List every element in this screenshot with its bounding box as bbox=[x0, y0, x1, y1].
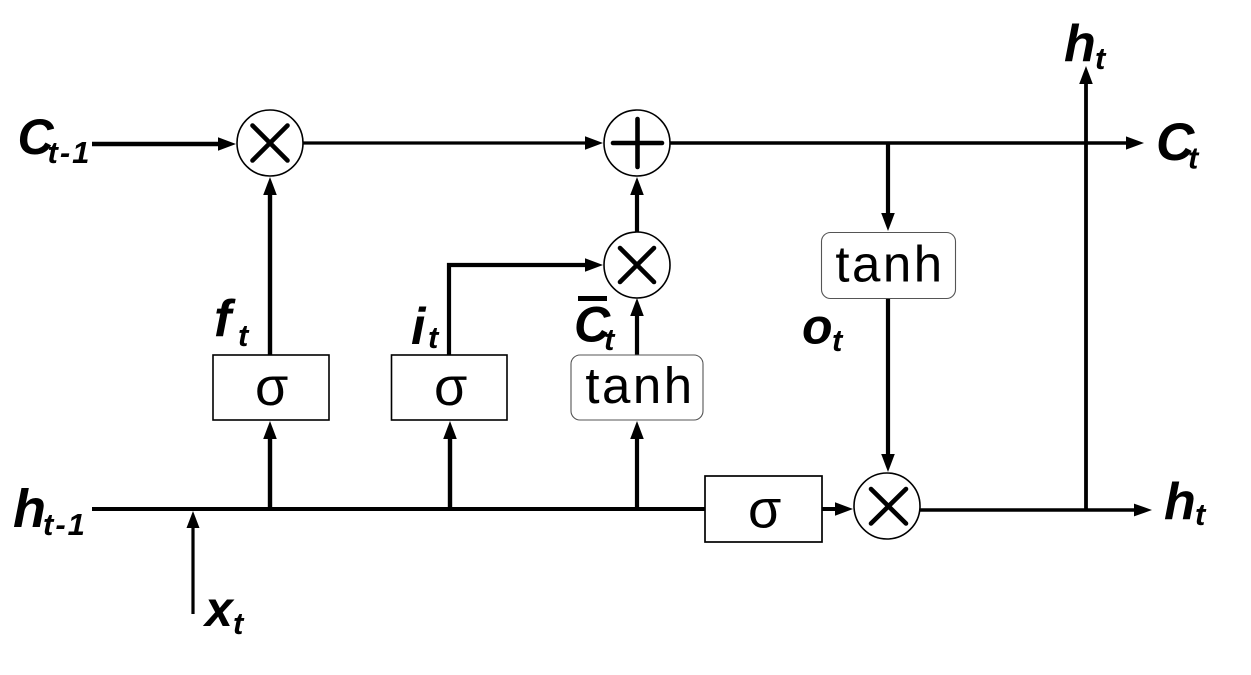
svg-text:h: h bbox=[1164, 473, 1196, 531]
svg-text:σ: σ bbox=[748, 480, 781, 540]
wire candidate multiply to add gate bbox=[635, 191, 639, 232]
wire branch up to candidate tanh bbox=[635, 434, 639, 509]
svg-text:t: t bbox=[233, 606, 245, 641]
wire h_t-1 rail bbox=[92, 507, 839, 511]
wire hidden state up to h_t top bbox=[1084, 80, 1088, 509]
svg-text:h: h bbox=[1064, 15, 1096, 73]
wire cell state branch down to output tanh bbox=[886, 143, 890, 217]
candidate tanh box bbox=[571, 355, 703, 420]
svg-text:t: t bbox=[238, 318, 250, 353]
wire x_t input bbox=[191, 522, 194, 614]
multiply gate (output) bbox=[854, 473, 920, 539]
svg-text:σ: σ bbox=[434, 357, 467, 417]
svg-text:i: i bbox=[411, 298, 427, 356]
input gate sigma box bbox=[392, 355, 508, 420]
multiply gate (candidate) bbox=[604, 232, 670, 298]
svg-text:t: t bbox=[1188, 141, 1200, 176]
svg-text:t: t bbox=[1195, 497, 1207, 532]
forget gate sigma box bbox=[213, 355, 329, 420]
wire forget multiply to add gate bbox=[303, 141, 589, 144]
svg-text:t: t bbox=[832, 323, 844, 358]
svg-text:t: t bbox=[428, 320, 440, 355]
wire forget gate to multiply bbox=[268, 191, 272, 355]
wire branch up to input gate bbox=[448, 434, 452, 509]
svg-text:t: t bbox=[1095, 41, 1107, 76]
svg-text:tanh: tanh bbox=[585, 357, 694, 414]
svg-text:t: t bbox=[604, 322, 616, 357]
output gate sigma box bbox=[705, 476, 822, 542]
svg-text:o: o bbox=[802, 299, 833, 355]
svg-text:x: x bbox=[202, 581, 235, 637]
wire add gate to C_t output bbox=[670, 141, 1128, 144]
svg-text:σ: σ bbox=[255, 357, 288, 417]
wire output tanh to output multiply bbox=[886, 299, 890, 458]
wire output multiply to h_t output bbox=[920, 508, 1136, 511]
svg-text:t-1: t-1 bbox=[48, 135, 92, 170]
svg-text:h: h bbox=[13, 479, 46, 539]
wire branch up to forget gate bbox=[268, 434, 272, 509]
multiply gate (forget) bbox=[237, 110, 303, 176]
svg-text:t-1: t-1 bbox=[43, 507, 87, 542]
wire C_t-1 to forget multiply gate bbox=[92, 142, 222, 146]
wire input gate up and right to candidate multiply bbox=[449, 265, 589, 355]
svg-text:tanh: tanh bbox=[835, 236, 944, 293]
output tanh box bbox=[822, 233, 956, 299]
add gate bbox=[604, 110, 670, 176]
wire candidate tanh to candidate multiply bbox=[635, 312, 639, 355]
